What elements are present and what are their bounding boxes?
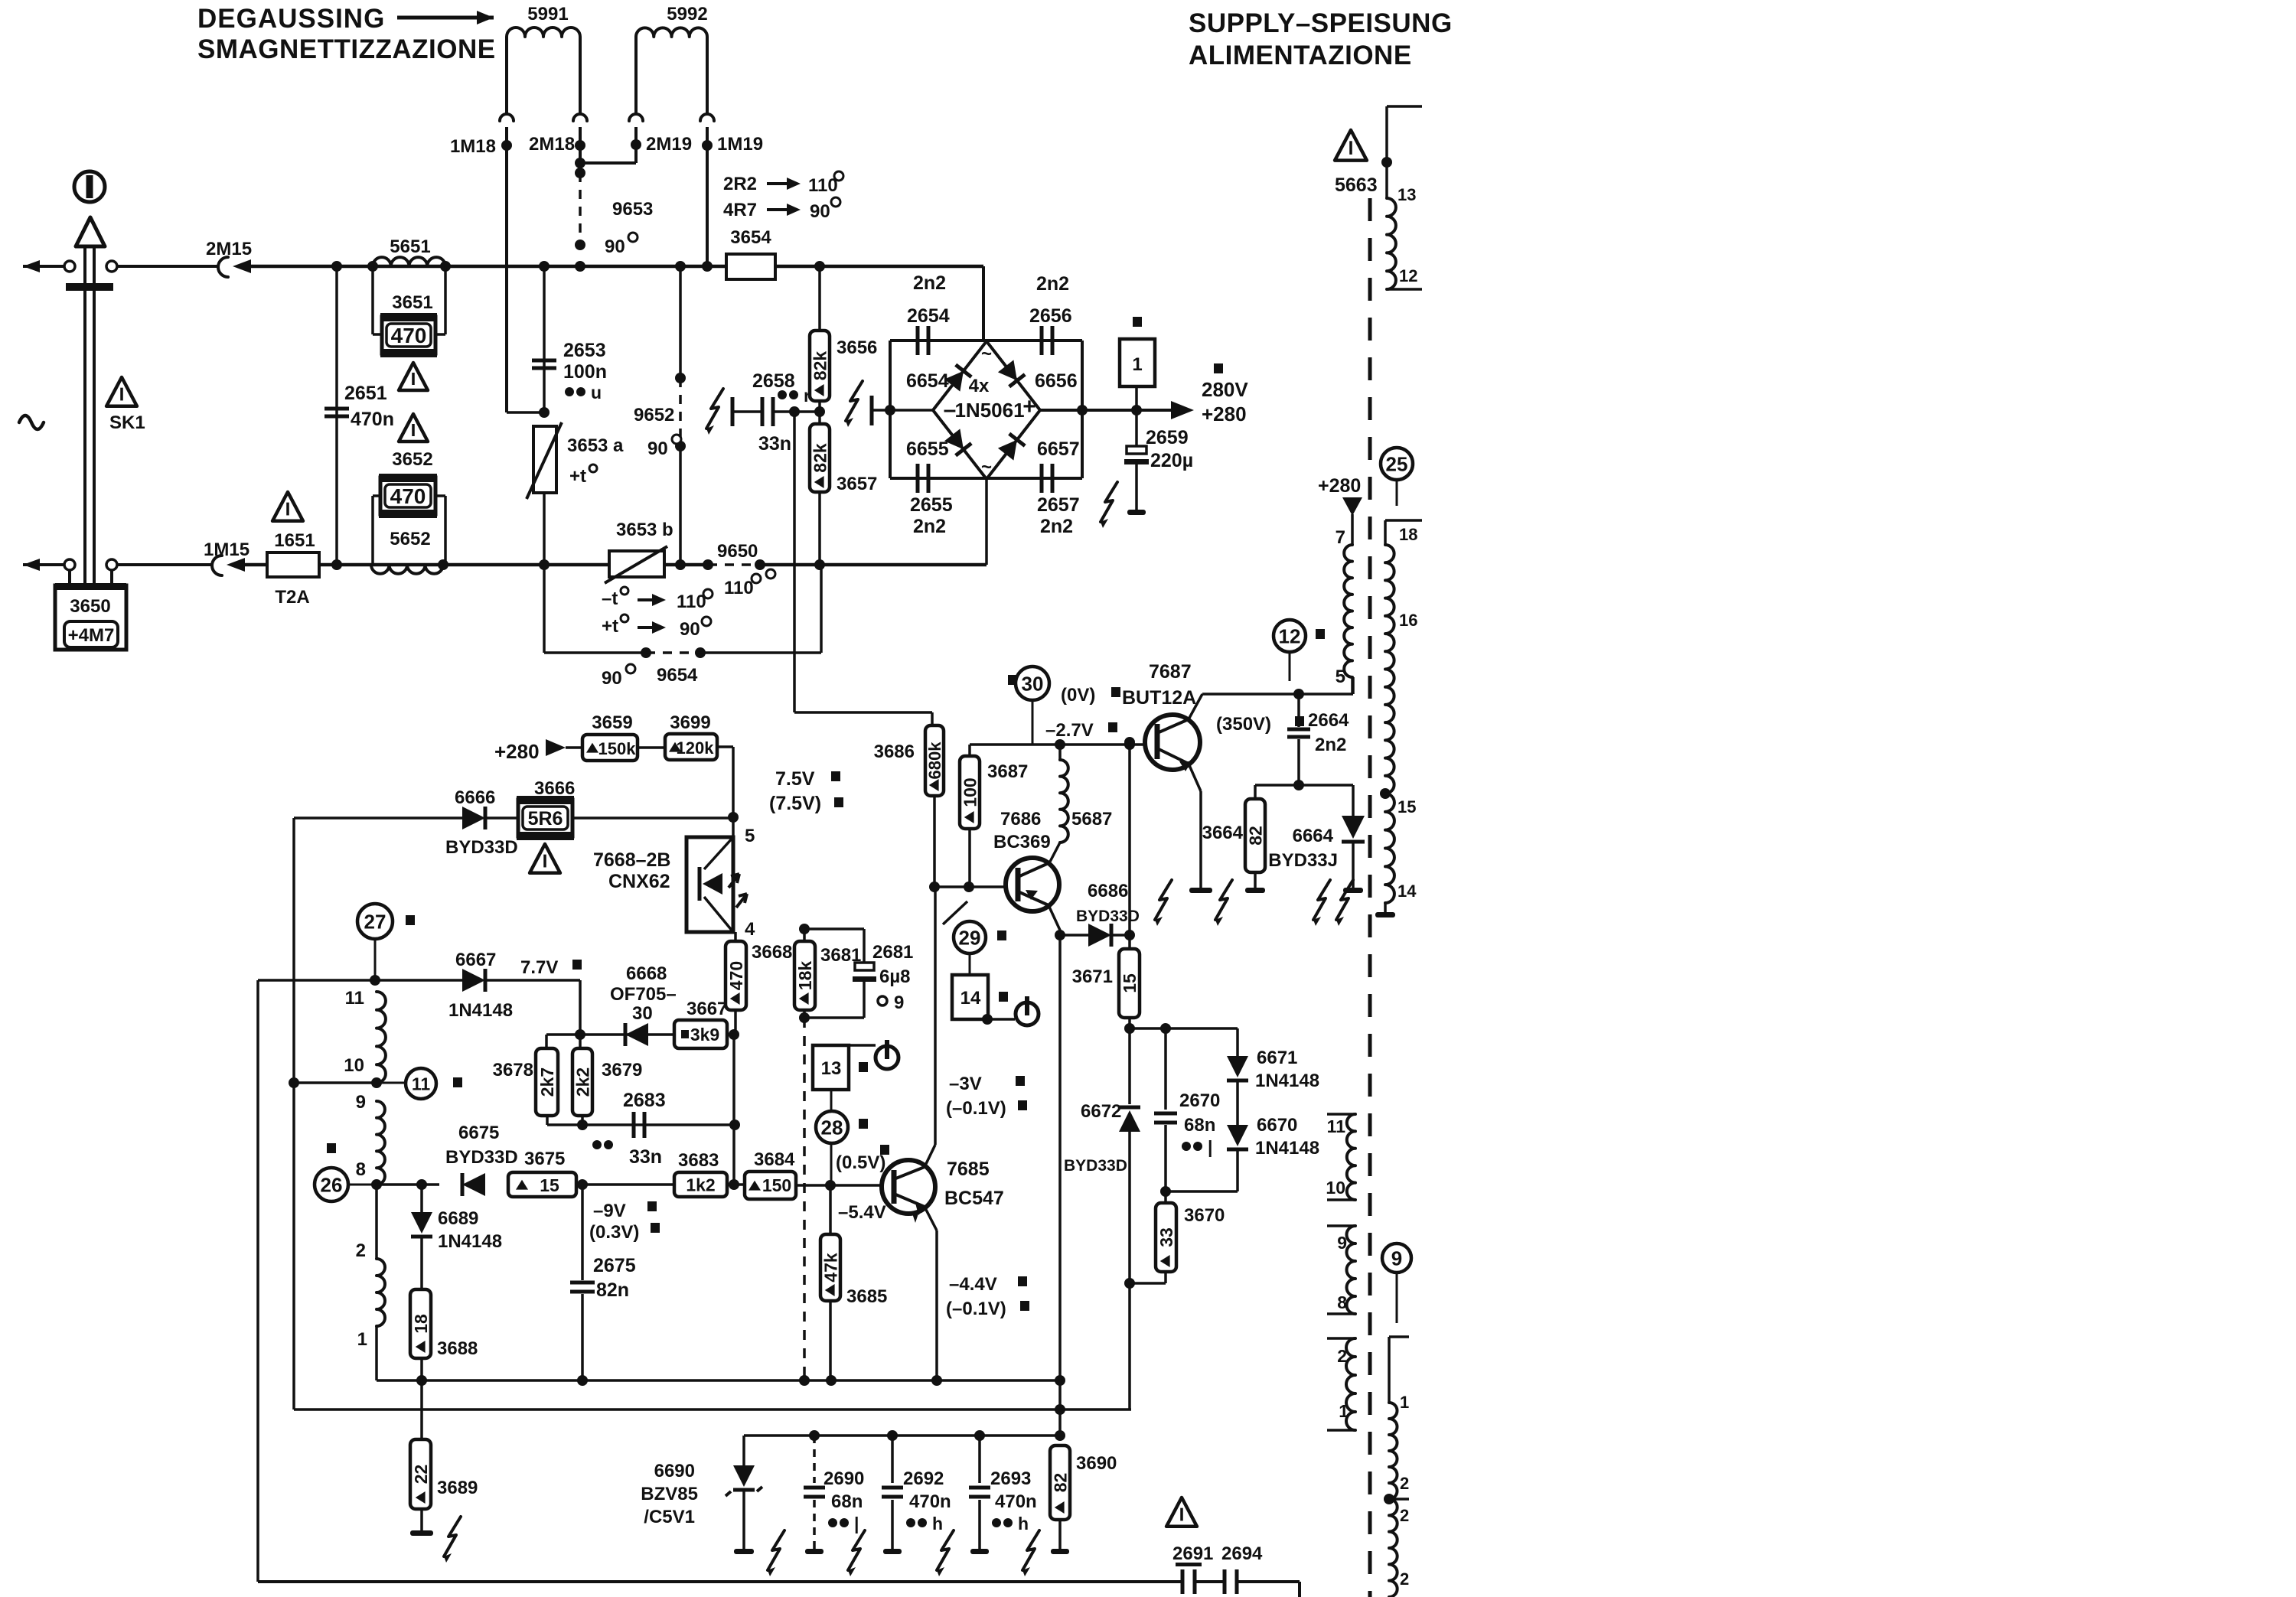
winding 2-1 secondary (1327, 1337, 1355, 1340)
zener 6690 BZV85/C5V1 (742, 1436, 745, 1465)
svg-text:3651: 3651 (392, 292, 432, 313)
svg-text:15: 15 (1120, 973, 1140, 993)
wire mains line L (23, 265, 64, 268)
svg-text:BC547: BC547 (944, 1188, 1004, 1209)
svg-text:90: 90 (602, 668, 622, 689)
svg-text:30: 30 (1022, 672, 1044, 695)
svg-text:2k7: 2k7 (537, 1067, 557, 1097)
svg-text:5: 5 (745, 826, 755, 846)
svg-text:3687: 3687 (987, 761, 1028, 782)
svg-text:(350V): (350V) (1216, 714, 1271, 735)
winding right 1-2-2-2 (1389, 1335, 1409, 1338)
wire bus to bridge top (982, 266, 985, 341)
warning triangle 2691 (1166, 1498, 1197, 1527)
warning triangle 3666 (530, 844, 560, 873)
svg-text:(0V): (0V) (1061, 685, 1095, 706)
svg-text:6670: 6670 (1257, 1115, 1297, 1136)
svg-text:82k: 82k (810, 443, 830, 473)
capacitor 2690 68n (813, 1436, 816, 1483)
svg-text:100n: 100n (563, 361, 607, 383)
warning triangle 1651 (272, 492, 303, 521)
svg-text:150: 150 (762, 1175, 791, 1195)
svg-text:2651: 2651 (344, 383, 387, 404)
svg-text:3657: 3657 (837, 474, 877, 494)
svg-text:(7.5V): (7.5V) (769, 793, 821, 814)
svg-text:h: h (1018, 1514, 1029, 1533)
svg-text:25: 25 (1386, 452, 1408, 475)
svg-text:6655: 6655 (906, 438, 949, 460)
capacitor 2656 2n2 (1040, 326, 1044, 355)
lightning chassis 2659 (1101, 482, 1117, 522)
svg-text:3666: 3666 (534, 778, 575, 799)
ground 6664 (1343, 888, 1363, 893)
svg-text:82: 82 (1245, 826, 1265, 846)
svg-text:+: + (1022, 394, 1036, 419)
svg-text:8: 8 (1337, 1292, 1347, 1312)
svg-text:2675: 2675 (593, 1255, 636, 1276)
svg-text:680k: 680k (925, 741, 944, 780)
diode 6655 (944, 429, 971, 455)
svg-text:33n: 33n (629, 1146, 662, 1168)
svg-text:6689: 6689 (438, 1208, 478, 1229)
warning triangle SK1 (106, 377, 137, 406)
svg-text:2M19: 2M19 (646, 134, 692, 155)
svg-text:3683: 3683 (678, 1150, 719, 1171)
svg-text:BUT12A: BUT12A (1122, 687, 1196, 709)
svg-text:(–0.1V): (–0.1V) (946, 1098, 1006, 1119)
svg-text:1N4148: 1N4148 (448, 1000, 513, 1021)
wire bridge bottom to neutral bus (985, 479, 988, 565)
wire 2675 branch (581, 1185, 584, 1280)
capacitor 2670 68n (1164, 1028, 1167, 1110)
svg-text:3664: 3664 (1202, 823, 1244, 843)
svg-text:+t: +t (569, 466, 586, 487)
svg-text:6675: 6675 (458, 1123, 499, 1143)
svg-text:220µ: 220µ (1150, 450, 1193, 471)
capacitor 2664 2n2 (1297, 694, 1300, 727)
bridge 4x 1N5061 diamond (933, 341, 1040, 479)
svg-text:2k2: 2k2 (572, 1067, 592, 1097)
svg-text:BZV85: BZV85 (641, 1484, 698, 1504)
wire 3681 return (dashed) (803, 1018, 806, 1380)
fuse 1651 T2A (267, 552, 319, 577)
wire neutral bus (245, 563, 708, 567)
svg-text:2690: 2690 (823, 1468, 864, 1489)
svg-text:5652: 5652 (390, 529, 430, 549)
connector pin 2M19 (629, 114, 643, 121)
connector pin 1M19 (700, 114, 714, 121)
capacitor 2659 220u electrolytic (1135, 410, 1138, 446)
svg-text:10: 10 (344, 1055, 364, 1076)
transistor 7686 BC369 (1006, 858, 1059, 911)
svg-text:2R2: 2R2 (723, 174, 757, 194)
capacitor 2694 (1195, 1580, 1225, 1583)
arrow degaussing title (397, 16, 494, 20)
svg-text:h: h (932, 1514, 943, 1533)
svg-text:SMAGNETTIZZAZIONE: SMAGNETTIZZAZIONE (197, 34, 496, 64)
svg-text:T2A: T2A (275, 587, 309, 608)
svg-text:3668: 3668 (752, 942, 792, 963)
circle 29 (954, 921, 986, 953)
svg-text:11: 11 (1327, 1116, 1346, 1136)
svg-text:2664: 2664 (1308, 710, 1349, 731)
svg-text:120k: 120k (677, 738, 715, 758)
svg-text:–t: –t (602, 588, 618, 609)
svg-text:11: 11 (412, 1074, 431, 1093)
svg-text:3670: 3670 (1184, 1205, 1225, 1226)
svg-text:29: 29 (959, 926, 981, 949)
svg-text:3689: 3689 (437, 1478, 478, 1498)
svg-text:5992: 5992 (667, 4, 707, 24)
svg-text:+280: +280 (494, 740, 540, 763)
wire 3656 branch (818, 266, 821, 331)
svg-text:3684: 3684 (754, 1149, 795, 1170)
diode 6689 1N4148 (420, 1185, 423, 1212)
resistor 3689 22 (410, 1439, 431, 1509)
capacitor 2655 2n2 (916, 464, 920, 493)
svg-text:68n: 68n (1184, 1115, 1215, 1136)
svg-text:18: 18 (1399, 525, 1417, 544)
svg-text:100: 100 (960, 777, 980, 807)
svg-text:3k9: 3k9 (690, 1025, 719, 1045)
wire startup resistor line (294, 816, 462, 820)
svg-text:1: 1 (1400, 1393, 1409, 1412)
svg-text:3671: 3671 (1072, 966, 1113, 987)
capacitor 2693 470n (978, 1436, 981, 1483)
svg-text:3686: 3686 (874, 741, 915, 762)
circle 27 (357, 904, 393, 939)
svg-text:BYD33D: BYD33D (445, 1147, 518, 1168)
lightning chassis 6664 (1313, 880, 1330, 920)
svg-text:3650: 3650 (70, 596, 110, 617)
svg-text:5687: 5687 (1071, 809, 1112, 829)
wire 6667 corner down (579, 980, 582, 1035)
svg-text:1651: 1651 (274, 530, 315, 551)
resistor 3651 470 (371, 266, 374, 334)
svg-text:12: 12 (1399, 266, 1417, 285)
svg-text:3685: 3685 (846, 1286, 887, 1307)
wire mains line N (23, 563, 64, 566)
rail decouple (744, 1434, 1060, 1437)
svg-text:7.7V: 7.7V (520, 957, 558, 978)
svg-text:1k2: 1k2 (686, 1175, 715, 1194)
svg-text:1M19: 1M19 (717, 134, 763, 155)
svg-text:2659: 2659 (1146, 427, 1189, 448)
svg-text:12: 12 (1279, 624, 1301, 647)
wire 2653 branch (543, 266, 546, 412)
svg-text:2655: 2655 (910, 494, 953, 516)
thermistor 3653a (533, 426, 556, 493)
terminal circle (106, 559, 117, 570)
switch 9650 (703, 559, 713, 570)
warning triangle (399, 414, 428, 442)
wire BUT12A emitter (1189, 764, 1201, 791)
svg-text:15: 15 (540, 1175, 559, 1195)
power symbol near 13 (876, 1046, 899, 1069)
resistor 3664 82 (1255, 784, 1299, 787)
svg-text:11: 11 (345, 988, 364, 1009)
svg-text:110: 110 (724, 578, 754, 598)
bridge outer frame (890, 339, 1082, 342)
terminal circle (64, 261, 75, 272)
svg-text:9: 9 (356, 1092, 366, 1113)
svg-text:ALIMENTAZIONE: ALIMENTAZIONE (1189, 41, 1412, 70)
svg-text:BYD33D: BYD33D (445, 837, 518, 858)
svg-text:3688: 3688 (437, 1338, 478, 1359)
connector box 14 (952, 975, 988, 1019)
svg-text:7668–2B: 7668–2B (593, 849, 670, 871)
lightning chassis bridge input (846, 381, 863, 421)
wire 280V output (1040, 409, 1173, 412)
svg-text:3652: 3652 (392, 449, 432, 470)
svg-text:CNX62: CNX62 (608, 871, 670, 892)
capacitor 2675 82n (570, 1281, 595, 1285)
svg-text:5991: 5991 (527, 4, 568, 24)
svg-text:110: 110 (808, 175, 838, 196)
resistor 3690 82 (1050, 1445, 1070, 1520)
wire pin8 row (377, 1183, 439, 1186)
svg-text:3653 a: 3653 a (567, 435, 624, 456)
resistor 3688 18 (410, 1289, 431, 1358)
svg-text:30: 30 (632, 1003, 653, 1024)
wire BUT12A base branch down (1128, 742, 1131, 949)
svg-text:/C5V1: /C5V1 (644, 1507, 695, 1527)
svg-text:2: 2 (1400, 1569, 1409, 1589)
svg-text:3659: 3659 (592, 712, 632, 733)
svg-text:1N4148: 1N4148 (1255, 1138, 1319, 1159)
svg-text:~: ~ (981, 344, 992, 364)
svg-text:9: 9 (894, 992, 904, 1013)
svg-text:6667: 6667 (455, 950, 496, 970)
svg-text:2n2: 2n2 (1315, 735, 1346, 755)
svg-text:82n: 82n (596, 1279, 629, 1301)
wire base node 7686 (934, 885, 1018, 888)
connector box 1 (1133, 317, 1142, 327)
svg-text:r: r (804, 386, 810, 406)
svg-text:7685: 7685 (947, 1159, 990, 1180)
lightning chassis 2690 (848, 1530, 865, 1570)
svg-text:68n: 68n (831, 1491, 863, 1512)
svg-text:–: – (944, 397, 957, 422)
svg-text:2683: 2683 (623, 1090, 666, 1111)
svg-text:82: 82 (1050, 1473, 1070, 1493)
resistor 3671 15 (1119, 949, 1140, 1018)
svg-text:470n: 470n (909, 1491, 951, 1512)
svg-text:16: 16 (1399, 611, 1417, 630)
switch SK1 contact bar (66, 283, 113, 291)
lightning chassis 3664 (1215, 880, 1232, 920)
svg-text:6690: 6690 (654, 1461, 695, 1481)
transistor 7685 BC547 (882, 1160, 935, 1214)
svg-text:1N5061: 1N5061 (954, 399, 1024, 422)
switch 9652 (679, 266, 682, 378)
svg-text:33n: 33n (758, 433, 791, 455)
svg-text:18k: 18k (795, 961, 815, 991)
diode 6671 1N4148 (1236, 1028, 1239, 1056)
wire BC547 emitter (925, 1207, 937, 1230)
svg-text:SK1: SK1 (109, 412, 145, 433)
svg-text:6666: 6666 (455, 787, 495, 808)
capacitor 2683 33n (632, 1112, 636, 1138)
svg-text:6671: 6671 (1257, 1048, 1297, 1068)
connector box 13 (813, 1045, 849, 1090)
svg-text:10: 10 (1326, 1178, 1345, 1198)
svg-text:(0.3V): (0.3V) (589, 1222, 639, 1243)
winding 13-12 secondary (1387, 105, 1422, 108)
svg-text:1M15: 1M15 (204, 539, 249, 560)
svg-text:(0.5V): (0.5V) (836, 1152, 885, 1173)
capacitor 2658 33n (731, 397, 735, 426)
svg-text:33: 33 (1156, 1227, 1176, 1247)
svg-text:2: 2 (1337, 1346, 1347, 1366)
svg-text:9650: 9650 (717, 541, 758, 562)
lightning chassis 6690 (768, 1530, 784, 1570)
svg-text:9652: 9652 (634, 405, 674, 425)
svg-text:1N4148: 1N4148 (438, 1231, 502, 1252)
standby lever (943, 901, 967, 924)
svg-text:BYD33J: BYD33J (1268, 850, 1338, 871)
wire pin10 stub (294, 1081, 377, 1084)
lightning chassis 2693 (1022, 1530, 1039, 1570)
diode 6686 BYD33D (1049, 905, 1062, 935)
svg-text:3699: 3699 (670, 712, 710, 733)
power switch symbol (74, 171, 105, 202)
svg-text:26: 26 (321, 1173, 343, 1196)
svg-text:27: 27 (364, 910, 386, 933)
svg-text:3690: 3690 (1076, 1453, 1117, 1474)
wire 2658 node down to 3686 (793, 412, 796, 712)
winding 18-14 secondary (1385, 519, 1422, 522)
rail control ground return (294, 1408, 1131, 1411)
svg-text:150k: 150k (598, 739, 637, 758)
capacitor 2651 470n (325, 407, 349, 411)
svg-text:9: 9 (1391, 1247, 1402, 1269)
svg-text:9654: 9654 (657, 665, 698, 686)
svg-text:470n: 470n (351, 409, 394, 430)
svg-text:2n2: 2n2 (1036, 273, 1069, 295)
svg-text:3656: 3656 (837, 337, 877, 358)
ground BUT12A emitter (1189, 888, 1212, 893)
diode 6667 1N4148 (462, 969, 485, 992)
capacitor 2691 (1176, 1563, 1202, 1566)
svg-text:–5.4V: –5.4V (838, 1202, 886, 1223)
svg-text:u: u (591, 383, 602, 403)
capacitor 2692 470n (891, 1436, 894, 1483)
connector pin 2M18 (573, 114, 587, 121)
svg-text:+t: +t (602, 616, 618, 637)
svg-text:15: 15 (1397, 797, 1416, 816)
svg-text:(–0.1V): (–0.1V) (946, 1299, 1006, 1319)
svg-text:2691: 2691 (1172, 1543, 1213, 1564)
resistor 3687 100 (960, 756, 980, 829)
wire 3678 3679 top rail (546, 1033, 674, 1036)
svg-text:2: 2 (1400, 1474, 1409, 1493)
svg-text:470: 470 (391, 324, 427, 347)
resistor 3686 680k (925, 725, 944, 796)
svg-text:2658: 2658 (752, 370, 795, 392)
svg-text:6654: 6654 (906, 370, 949, 392)
svg-text:+280: +280 (1318, 475, 1361, 497)
svg-text:3679: 3679 (602, 1060, 642, 1080)
svg-text:13: 13 (821, 1058, 842, 1079)
svg-text:7687: 7687 (1149, 661, 1192, 683)
svg-text:–4.4V: –4.4V (949, 1274, 997, 1295)
warning triangle 5663 (1335, 130, 1367, 161)
svg-text:2653: 2653 (563, 340, 606, 361)
bottom chassis rail (258, 1580, 1182, 1583)
svg-text:SUPPLY–SPEISUNG: SUPPLY–SPEISUNG (1189, 8, 1453, 38)
svg-text:1: 1 (1339, 1401, 1349, 1421)
diode 6656 (998, 360, 1025, 386)
svg-text:28: 28 (821, 1116, 843, 1139)
svg-text:47k: 47k (820, 1253, 840, 1282)
svg-text:–2.7V: –2.7V (1045, 720, 1094, 741)
wire 6686 node down (1058, 935, 1062, 1380)
capacitor 2681 6u8 electrolytic (804, 927, 864, 930)
mains filter 3650 (68, 570, 71, 585)
svg-text:2656: 2656 (1029, 305, 1072, 327)
svg-text:5663: 5663 (1335, 174, 1378, 196)
svg-text:5: 5 (1336, 667, 1345, 687)
svg-text:90: 90 (605, 236, 625, 257)
resistor 3668 470 (734, 932, 737, 941)
svg-text:BYD33D: BYD33D (1064, 1157, 1127, 1175)
svg-text:90: 90 (810, 201, 830, 222)
svg-text:280V: 280V (1202, 378, 1248, 401)
svg-text:9653: 9653 (612, 199, 653, 220)
diode 6664 BYD33J (1299, 784, 1353, 787)
svg-text:BC369: BC369 (993, 832, 1051, 852)
capacitor 2657 2n2 (1040, 464, 1044, 493)
svg-text:+4M7: +4M7 (68, 625, 115, 646)
svg-text:470: 470 (726, 961, 746, 990)
terminal circle (106, 261, 117, 272)
svg-text:2n2: 2n2 (913, 272, 946, 294)
svg-text:7.5V: 7.5V (775, 768, 815, 790)
resistor 3656 82k (810, 331, 830, 401)
wire live bus (251, 265, 983, 269)
svg-text:8: 8 (356, 1159, 366, 1180)
svg-text:1N4148: 1N4148 (1255, 1071, 1319, 1091)
diode 6668 OF705-30 (625, 1023, 648, 1046)
connector pin 1M18 (500, 114, 514, 121)
circle 26 (327, 1143, 336, 1153)
wire 6667 line (258, 979, 462, 982)
svg-text:6657: 6657 (1037, 438, 1080, 460)
wire 3699 to opto pin5 (717, 745, 733, 748)
svg-text:4R7: 4R7 (723, 200, 757, 220)
diode 6672 BYD33D (1119, 1106, 1140, 1110)
svg-text:2: 2 (356, 1240, 366, 1261)
svg-text:DEGAUSSING: DEGAUSSING (197, 4, 385, 34)
svg-text:90: 90 (647, 438, 668, 459)
diode 6657 (998, 434, 1025, 461)
svg-text:2654: 2654 (907, 305, 950, 327)
svg-text:3667: 3667 (687, 999, 727, 1019)
svg-text:2M18: 2M18 (529, 134, 575, 155)
svg-text:4x: 4x (969, 376, 990, 396)
wire 2670 loop top (1130, 1027, 1238, 1030)
svg-text:18: 18 (411, 1314, 431, 1334)
diode 6670 1N4148 (1236, 1082, 1239, 1125)
winding 11-10 secondary (1327, 1113, 1355, 1116)
capacitor 2654 2n2 (916, 326, 920, 355)
svg-text:2657: 2657 (1037, 494, 1080, 516)
lightning chassis winding (1336, 880, 1353, 920)
svg-text:14: 14 (1397, 882, 1417, 901)
svg-text:90: 90 (680, 619, 700, 640)
svg-text:2n2: 2n2 (1040, 516, 1073, 537)
